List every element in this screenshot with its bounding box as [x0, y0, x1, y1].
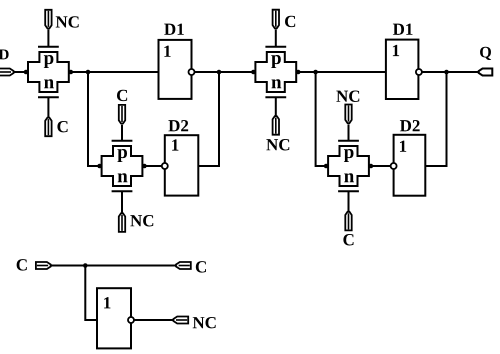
wire: stage-2 D1 output to Q port: [422, 71, 478, 73]
TG2 bottom gate wire: [121, 191, 123, 212]
wire: clock C rail: [51, 265, 177, 267]
TG3 gate terminal C: [273, 10, 279, 29]
"1" function label of D1: [393, 45, 399, 56]
inverter U1 (clock inverter): [97, 288, 131, 348]
label D2 (stage 1): [168, 120, 188, 131]
label C (TG4 bottom gate): [343, 234, 353, 245]
label C (clock input): [17, 259, 27, 270]
wire: D1 output to TG3 left (node B): [195, 71, 256, 73]
wire: TG2 right to D2 input bubble: [144, 165, 162, 167]
"1" function label of D2: [400, 141, 406, 152]
label NC (TG3 bottom gate): [266, 139, 289, 150]
TG3 top gate wire: [275, 30, 277, 47]
wire: stage-2 D2 right side riser to node Q: [425, 72, 446, 166]
TG1 p-channel label: [44, 55, 54, 68]
TG3 p-channel label: [271, 55, 281, 68]
junction node Q tap: [444, 70, 449, 75]
TG4 n-channel label: [344, 173, 354, 182]
"1" function label of clock inverter: [104, 297, 110, 308]
TG4 p-channel label: [344, 149, 354, 162]
label D2 (stage 2): [400, 120, 420, 131]
label D1 (stage 2): [393, 24, 413, 35]
TG4 top gate wire: [348, 124, 350, 140]
junction node C tap: [313, 70, 318, 75]
label Q: [480, 47, 491, 60]
TG2 p-channel label: [117, 149, 127, 162]
transmission gate TG3 body: [251, 47, 300, 98]
TG3 bottom gate wire: [275, 97, 277, 115]
inverter D2 (stage 2, mirrored): [394, 135, 426, 196]
label D: [0, 49, 9, 59]
label C (TG3 top gate): [285, 16, 295, 27]
input port D terminal: [0, 69, 14, 76]
label NC (TG1 top gate): [56, 16, 79, 27]
label NC (TG2 bottom gate): [130, 215, 153, 226]
wire: node A down to TG2 left: [88, 72, 102, 166]
inverter D1 (stage 2): [386, 40, 419, 99]
transmission gate TG2 body: [97, 141, 146, 192]
TG1 top gate wire: [47, 29, 49, 46]
wire: clock inverter output to NC port: [134, 319, 174, 321]
junction clock node: [83, 263, 88, 268]
D1 output bubble: [189, 69, 195, 75]
TG1 bottom gate wire: [47, 97, 49, 117]
wire: TG3 right to stage-2 D1 input (node C): [298, 71, 386, 73]
clock inverter output bubble: [128, 317, 134, 323]
TG2 n-channel label: [118, 173, 128, 182]
TG3 n-channel label: [272, 79, 282, 88]
TG1 gate terminal C: [45, 118, 51, 137]
junction node B tap: [217, 70, 222, 75]
"1" function label of D2: [172, 139, 178, 150]
TG4 gate terminal NC: [345, 105, 351, 124]
wire: TG4 right to stage-2 D2 input bubble: [371, 165, 391, 167]
label D1 (stage 1): [164, 24, 184, 35]
junction node A tap: [86, 70, 91, 75]
wire: D2 right side riser to node B: [198, 72, 219, 166]
port NC terminal (inverted clock): [173, 317, 188, 324]
transmission gate TG1 body: [24, 47, 73, 98]
TG4 bottom gate wire: [348, 191, 350, 211]
inverter D1 (stage 1): [159, 40, 192, 99]
label C (clock pass-through): [196, 261, 206, 272]
TG4 gate terminal C: [345, 212, 351, 231]
TG2 gate terminal C: [119, 105, 125, 124]
label C (TG1 bottom gate): [57, 121, 67, 132]
input port C terminal (clock): [36, 262, 51, 269]
wire: D input to TG1 left terminal: [13, 71, 28, 73]
"1" function label of D1: [164, 46, 170, 57]
output port Q terminal: [479, 69, 493, 76]
D2 input bubble: [162, 163, 168, 169]
wire: clock node down to clock inverter input: [85, 266, 97, 321]
wire: node C down to TG4 left: [316, 72, 329, 166]
transmission gate TG4 body: [324, 141, 373, 192]
TG3 gate terminal NC: [273, 116, 279, 135]
label NC (TG4 top gate): [336, 91, 359, 102]
wire: TG1 right to D1 input (node A): [69, 71, 159, 73]
inverter D2 (stage 1, mirrored): [165, 135, 199, 195]
TG1 gate terminal NC: [45, 10, 51, 29]
TG2 gate terminal NC: [119, 213, 125, 232]
stage-2 D2 input bubble: [391, 163, 397, 169]
port C terminal (clock pass-through): [176, 262, 191, 269]
TG1 n-channel label: [44, 79, 54, 88]
label C (TG2 top gate): [117, 90, 127, 101]
TG2 top gate wire: [121, 125, 123, 141]
stage-2 D1 output bubble: [416, 69, 422, 75]
label NC (inverted clock): [193, 317, 216, 328]
